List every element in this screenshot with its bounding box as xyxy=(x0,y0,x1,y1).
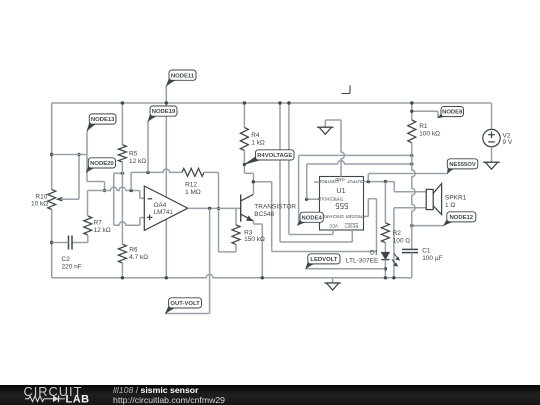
svg-text:NODE13: NODE13 xyxy=(91,117,115,123)
svg-text:100 kΩ: 100 kΩ xyxy=(419,130,440,137)
svg-text:NODE8: NODE8 xyxy=(442,110,463,116)
svg-text:12 kΩ: 12 kΩ xyxy=(129,158,146,165)
svg-text:NODE11: NODE11 xyxy=(171,73,195,79)
svg-text:TRIGGER: TRIGGER xyxy=(346,214,365,219)
svg-text:LM741: LM741 xyxy=(154,209,174,216)
svg-text:VCC: VCC xyxy=(329,224,338,229)
svg-text:NE555OV: NE555OV xyxy=(449,162,476,168)
svg-text:OUTPUT: OUTPUT xyxy=(347,179,364,184)
svg-text:NODE12: NODE12 xyxy=(450,215,474,221)
svg-text:LAB: LAB xyxy=(66,394,90,405)
svg-text:SPKR1: SPKR1 xyxy=(445,195,467,202)
svg-text:LEDVOLT: LEDVOLT xyxy=(310,257,337,263)
svg-text:NODE19: NODE19 xyxy=(152,109,176,115)
svg-text:OUT-VOLT: OUT-VOLT xyxy=(170,301,200,307)
svg-text:LTL-307EE: LTL-307EE xyxy=(346,257,379,264)
svg-text:R1: R1 xyxy=(419,123,428,130)
svg-text:100 µF: 100 µF xyxy=(422,255,442,262)
svg-text:NODE4: NODE4 xyxy=(302,215,323,221)
svg-text:1 Ω: 1 Ω xyxy=(445,202,455,209)
svg-text:150 kΩ: 150 kΩ xyxy=(244,236,265,243)
svg-text:U1: U1 xyxy=(336,186,345,195)
svg-text:C2: C2 xyxy=(62,256,71,263)
svg-text:R7: R7 xyxy=(94,220,103,227)
svg-text:THRESHOLD: THRESHOLD xyxy=(318,197,343,202)
svg-text:C1: C1 xyxy=(422,248,431,255)
svg-text:OA4: OA4 xyxy=(154,202,167,209)
svg-text:100 Ω: 100 Ω xyxy=(393,237,411,244)
svg-text:BC548: BC548 xyxy=(254,211,274,218)
svg-text:1 kΩ: 1 kΩ xyxy=(251,140,265,147)
svg-text:1 MΩ: 1 MΩ xyxy=(185,189,201,196)
svg-text:4.7 kΩ: 4.7 kΩ xyxy=(129,254,148,261)
svg-text:R4: R4 xyxy=(251,132,260,139)
svg-text:10 kΩ: 10 kΩ xyxy=(31,200,48,207)
svg-text:9 V: 9 V xyxy=(503,139,513,146)
svg-text:220 nF: 220 nF xyxy=(62,264,82,271)
svg-text:12 kΩ: 12 kΩ xyxy=(94,227,111,234)
svg-text:R10: R10 xyxy=(35,193,47,200)
svg-text:RESET: RESET xyxy=(344,224,358,229)
svg-text:R2: R2 xyxy=(393,230,402,237)
svg-text:GND: GND xyxy=(335,177,344,182)
svg-text:R6: R6 xyxy=(129,247,138,254)
svg-text:R5: R5 xyxy=(129,150,138,157)
svg-text:TRANSISTOR: TRANSISTOR xyxy=(254,203,296,210)
svg-text:NODE20: NODE20 xyxy=(90,161,114,167)
svg-text:R4VOLTAGE: R4VOLTAGE xyxy=(257,153,292,159)
svg-text:R12: R12 xyxy=(185,181,197,188)
svg-text:D1: D1 xyxy=(370,250,379,257)
